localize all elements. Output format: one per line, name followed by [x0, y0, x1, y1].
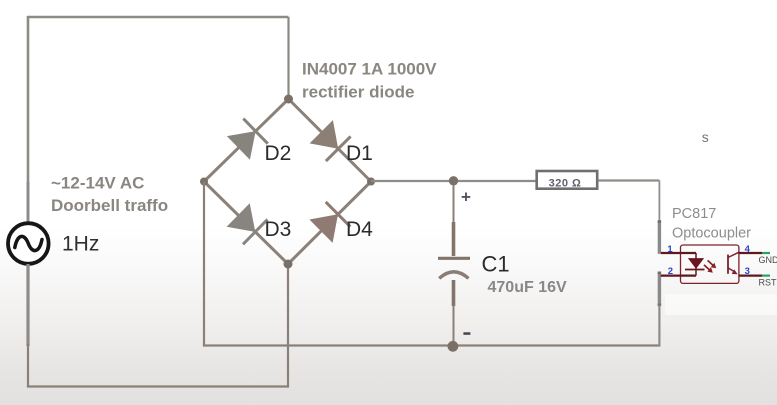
- background highlight patch: [665, 294, 777, 315]
- label plus polarity: [461, 188, 471, 207]
- label IN4007 rectifier diode: [302, 60, 437, 102]
- bridge diamond edge bottom-right (D4 branch): [288, 182, 371, 265]
- wire DC plus: bridge right node to resistor: [371, 180, 536, 182]
- label 1Hz: [62, 233, 99, 256]
- net stub RST (green): [762, 275, 770, 277]
- label C1: [482, 252, 510, 277]
- svg-text:D4: D4: [346, 218, 373, 241]
- svg-text:1Hz: 1Hz: [62, 233, 99, 256]
- pin stub opto pin 1: [658, 220, 661, 254]
- optocoupler light arrows: [704, 260, 716, 272]
- wire from AC source bottom to bottom-left corner: [27, 344, 29, 387]
- optocoupler pin 4 wire: [739, 252, 763, 254]
- optocoupler pin 3 wire: [739, 275, 763, 277]
- capacitor C1 bottom lead: [452, 280, 456, 306]
- pin number 3: [745, 266, 750, 277]
- bridge diamond edge top-left (D2 branch): [204, 99, 289, 182]
- optocoupler pin 2 wire: [661, 275, 696, 277]
- node bridge right: [367, 178, 375, 186]
- svg-text:D2: D2: [265, 142, 292, 165]
- wire from bottom rail up to bridge bottom node: [287, 264, 289, 388]
- wire from top rail down to bridge top node: [287, 17, 289, 99]
- capacitor C1 plates: [438, 258, 470, 278]
- wire top rail from AC source to bridge top: [28, 16, 289, 18]
- diode D2 symbol: [227, 119, 268, 160]
- svg-text:1: 1: [667, 244, 673, 255]
- resistor R1 320 ohm: [537, 171, 598, 190]
- wire DC minus: bridge left node down: [203, 182, 205, 346]
- pin stub below AC source: [26, 264, 29, 346]
- svg-text:~12-14V AC: ~12-14V AC: [51, 174, 144, 193]
- svg-text:2: 2: [668, 266, 673, 277]
- svg-text:Optocoupler: Optocoupler: [672, 226, 751, 242]
- pin stub opto pin 2: [658, 272, 661, 307]
- net label GND: [759, 255, 777, 265]
- label s: [702, 129, 709, 145]
- svg-text:470uF 16V: 470uF 16V: [488, 279, 567, 296]
- diode D1 symbol: [310, 120, 351, 161]
- wire from opto pin 2 down to minus rail: [658, 305, 660, 347]
- svg-text:C1: C1: [482, 252, 510, 277]
- capacitor C1 top wire: [453, 181, 455, 223]
- label minus polarity: [463, 332, 470, 335]
- wire DC minus rail to optocoupler: [203, 344, 660, 346]
- bridge diamond edge top-right (D1 branch): [289, 99, 372, 182]
- pin stub above AC source: [27, 182, 30, 224]
- pin number 1: [667, 244, 673, 255]
- bridge diamond edge bottom-left (D3 branch): [204, 182, 288, 265]
- net stub GND (green): [762, 252, 770, 254]
- node capacitor top junction: [449, 176, 458, 185]
- pin number 4: [745, 244, 751, 255]
- capacitor C1 bottom wire: [453, 305, 455, 346]
- diode D3 symbol: [227, 203, 268, 244]
- label PC817 Optocoupler: [672, 206, 751, 242]
- svg-text:D1: D1: [346, 142, 373, 165]
- net label RST: [759, 278, 777, 288]
- svg-text:rectifier diode: rectifier diode: [302, 83, 414, 102]
- wire bottom AC return rail: [27, 385, 288, 387]
- svg-text:PC817: PC817: [672, 206, 716, 222]
- node bridge left: [200, 178, 208, 186]
- wire right vertical down to opto pin 1: [658, 181, 660, 223]
- svg-text:s: s: [702, 129, 709, 145]
- AC source V1 (sine symbol): [8, 223, 49, 264]
- node bridge top: [284, 95, 293, 104]
- capacitor C1 top lead: [452, 222, 456, 256]
- svg-text:RST: RST: [759, 278, 777, 288]
- pin number 2: [668, 266, 673, 277]
- svg-text:IN4007 1A 1000V: IN4007 1A 1000V: [302, 60, 437, 79]
- svg-text:320 Ω: 320 Ω: [549, 178, 582, 190]
- wire from resistor to right corner: [598, 179, 659, 181]
- label D3: [265, 218, 292, 241]
- node bridge bottom: [284, 260, 293, 269]
- node capacitor bottom junction: [448, 341, 459, 352]
- optocoupler internal LED: [685, 253, 705, 276]
- svg-text:3: 3: [745, 266, 750, 277]
- svg-text:+: +: [461, 188, 471, 207]
- label transformer ~12-14V AC Doorbell traffo: [51, 174, 168, 216]
- svg-text:GND: GND: [759, 255, 777, 265]
- label D4: [346, 218, 373, 241]
- label C1 value 470uF 16V: [488, 279, 567, 296]
- optocoupler U1 body: [681, 245, 739, 283]
- optocoupler pin 1 wire: [661, 252, 696, 254]
- optocoupler phototransistor: [728, 252, 739, 274]
- label D2: [265, 142, 292, 165]
- label D1: [346, 142, 373, 165]
- svg-text:Doorbell traffo: Doorbell traffo: [51, 196, 168, 215]
- svg-text:D3: D3: [265, 218, 292, 241]
- wire left vertical from top rail to AC source: [27, 16, 30, 184]
- diode D4 symbol: [309, 202, 350, 243]
- svg-text:4: 4: [745, 244, 751, 255]
